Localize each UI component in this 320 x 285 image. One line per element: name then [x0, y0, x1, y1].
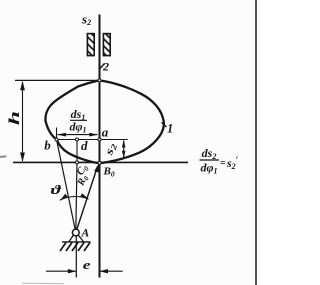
- pivot support triangle: [69, 235, 84, 242]
- node b: [55, 138, 58, 141]
- ground hatching: [60, 243, 90, 252]
- ds1/dphi1 dimension line with outward arrows: [58, 134, 98, 136]
- chord line b-d-a: [57, 139, 128, 141]
- extension tick at b: [56, 128, 58, 140]
- pivot A circle: [72, 229, 79, 236]
- crank radius R0 arrow A to B0: [76, 167, 98, 233]
- h top reference line: [15, 79, 100, 81]
- svg-text:ϑ: ϑ: [51, 183, 63, 197]
- svg-text:dφ1: dφ1: [200, 161, 217, 176]
- guide block left: [87, 34, 94, 56]
- node a: [98, 138, 101, 141]
- svg-text:s2: s2: [81, 12, 91, 28]
- svg-text:s2′: s2′: [226, 155, 239, 171]
- svg-text:B0: B0: [103, 166, 115, 179]
- e dimension left arrow: [46, 270, 76, 272]
- drop line d-C0: [76, 140, 78, 163]
- curve 1: transfer-function oval: [45, 80, 163, 163]
- ground line: [62, 241, 91, 243]
- label 1 with leader: [162, 123, 167, 128]
- svg-text:=: =: [220, 158, 226, 169]
- theta angle arc with arrows: [60, 197, 89, 200]
- h dimension double arrow: [22, 82, 24, 161]
- svg-text:e: e: [83, 258, 91, 272]
- page edge line (right): [255, 0, 257, 285]
- node at curve top: [98, 79, 101, 82]
- link A-C0: [76, 162, 77, 232]
- svg-text:R0: R0: [75, 173, 91, 189]
- page-left faint mark near axis: [0, 155, 7, 158]
- link A-b: [57, 140, 76, 233]
- svg-text:ds2: ds2: [202, 146, 217, 161]
- guide block right: [103, 34, 110, 56]
- e dimension right arrow: [100, 270, 123, 272]
- svg-text:2: 2: [102, 59, 109, 73]
- svg-text:s2: s2: [102, 141, 120, 158]
- svg-text:b: b: [44, 138, 51, 153]
- pivot centerline below ground: [75, 236, 77, 278]
- node C0: [76, 161, 79, 164]
- wire: slider axis vertical line (link 2): [99, 15, 101, 278]
- s2 ordinate dimension double arrow: [123, 141, 125, 158]
- axis: horizontal line ds2/dphi1: [13, 161, 188, 163]
- svg-text:a: a: [102, 124, 109, 139]
- node d: [76, 138, 79, 141]
- svg-text:h: h: [5, 111, 22, 125]
- svg-text:A: A: [81, 227, 90, 239]
- svg-text:d: d: [81, 138, 88, 153]
- node B0: [98, 161, 101, 164]
- page-bottom faint mark: [22, 282, 64, 284]
- label 2 with tick: [100, 64, 105, 70]
- svg-text:1: 1: [167, 122, 173, 136]
